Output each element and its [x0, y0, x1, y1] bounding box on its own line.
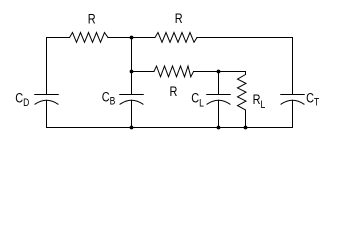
wire bottom rail	[47, 127, 293, 129]
wire top between R1 and R2 through node A	[108, 37, 155, 39]
capacitor CT curved bottom plate	[281, 100, 304, 104]
node C junction dot (middle row / C_L)	[217, 70, 221, 74]
wire C_L vertical lower (C_L to bottom rail)	[218, 100, 220, 127]
svg-text:CT: CT	[306, 90, 319, 108]
capacitor CT top plate	[281, 94, 305, 96]
junction dot bottom rail at R_L	[244, 126, 248, 130]
svg-text:R: R	[88, 11, 96, 27]
resistor R3 (middle R)	[154, 66, 194, 77]
wire left vertical lower (C_D to bottom rail)	[46, 100, 48, 127]
capacitor CD curved bottom plate	[35, 100, 58, 104]
node B junction dot (middle row left)	[130, 70, 134, 74]
junction dot bottom rail at C_B	[130, 126, 134, 130]
capacitor CL curved bottom plate	[207, 100, 230, 104]
wire top-right segment (R2 to top-right corner)	[197, 37, 293, 39]
capacitor CB top plate	[120, 94, 144, 96]
resistor R2 (top right R)	[155, 33, 197, 43]
capacitor CB curved bottom plate	[120, 100, 143, 104]
wire middle branch vertical (node A down to C_B)	[131, 38, 133, 95]
resistor RL (vertical load resistor)	[238, 75, 247, 111]
wire right vertical lower (C_T to bottom rail)	[292, 100, 294, 127]
wire left vertical upper (to C_D top plate)	[46, 38, 48, 95]
wire R_L bottom stub	[245, 110, 247, 128]
node A junction dot (top rail / middle branch)	[130, 36, 134, 40]
wire top-left segment (top-left corner to R1)	[47, 37, 70, 39]
wire right vertical upper (top-right corner to C_T)	[292, 38, 294, 95]
resistor R1 (top left R)	[70, 33, 109, 43]
svg-text:R: R	[175, 11, 183, 27]
svg-text:R: R	[170, 84, 178, 100]
wire below C_B to bottom rail	[131, 100, 133, 127]
svg-text:CL: CL	[191, 90, 204, 109]
wire middle row left stub (node B to R3)	[132, 71, 155, 73]
wire R_L top stub	[245, 72, 247, 75]
wire middle row right segment (R3 through node C to R_L corner)	[194, 71, 246, 73]
svg-text:CD: CD	[15, 90, 29, 109]
svg-text:CB: CB	[102, 89, 116, 108]
capacitor CD top plate	[35, 94, 59, 96]
junction dot bottom rail at C_L	[217, 126, 221, 130]
svg-text:RL: RL	[253, 92, 266, 111]
wire C_L vertical upper (node C to C_L)	[218, 72, 220, 95]
capacitor CL top plate	[207, 94, 231, 96]
